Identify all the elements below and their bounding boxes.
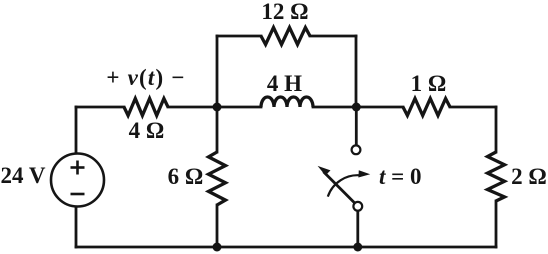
svg-text:+ v(t) −: + v(t) −: [106, 65, 185, 90]
svg-text:4 H: 4 H: [267, 71, 302, 96]
svg-text:1 Ω: 1 Ω: [411, 71, 447, 96]
svg-text:24 V: 24 V: [1, 163, 46, 188]
svg-text:4 Ω: 4 Ω: [129, 118, 165, 143]
svg-text:2 Ω: 2 Ω: [511, 164, 547, 189]
svg-text:t = 0: t = 0: [379, 164, 422, 189]
svg-text:6 Ω: 6 Ω: [168, 164, 204, 189]
svg-text:12 Ω: 12 Ω: [261, 0, 308, 24]
